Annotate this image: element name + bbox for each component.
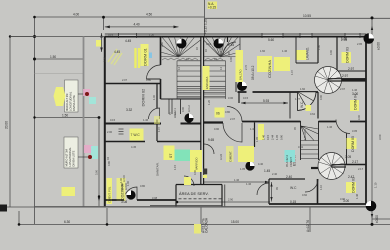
cozinha left label xyxy=(117,178,126,201)
svg-text:0.90: 0.90 xyxy=(229,56,233,62)
svg-text:4.40: 4.40 xyxy=(258,162,264,166)
svg-text:1.46: 1.46 xyxy=(234,178,240,182)
window midlines top wall xyxy=(119,34,360,36)
wall area serv left x176 xyxy=(175,185,177,207)
svg-text:1.07: 1.07 xyxy=(157,126,161,132)
wall lavand bottom y63 xyxy=(296,62,318,64)
svg-text:DORM 02: DORM 02 xyxy=(141,88,146,107)
wall wc3 left x269 xyxy=(268,179,270,204)
wall stair bottom y99 xyxy=(161,98,201,100)
svg-text:0.80: 0.80 xyxy=(225,110,231,114)
06 label xyxy=(215,108,225,118)
wall left house outer x104.5 xyxy=(104,37,106,208)
svg-text:LONGITUDINAL: LONGITUDINAL xyxy=(69,91,73,111)
svg-text:DORM 05: DORM 05 xyxy=(351,136,355,152)
lavand label xyxy=(297,47,310,60)
dim bottom connector left xyxy=(0,206,35,208)
svg-text:5.93: 5.93 xyxy=(263,99,269,103)
halo pink 2 xyxy=(84,145,92,153)
svg-text:07: 07 xyxy=(168,153,173,158)
svg-text:1.46: 1.46 xyxy=(352,88,358,92)
stair right-house winder fan xyxy=(204,37,240,61)
front line dark segment under area serv xyxy=(150,204,222,206)
party wall end block xyxy=(203,169,207,175)
yellow strip right of green xyxy=(190,150,202,172)
svg-text:1.00: 1.00 xyxy=(341,37,347,41)
dim garage vertical x99 xyxy=(98,118,100,207)
recuo faint line garage xyxy=(35,73,84,75)
wall kitchen bottom y92 xyxy=(238,91,319,93)
door arc dorm02 xyxy=(149,108,160,119)
light C5 copa left xyxy=(126,190,135,199)
svg-text:3.00: 3.00 xyxy=(95,169,99,175)
svg-text:±0.00: ±0.00 xyxy=(377,42,381,50)
light C2 stair right xyxy=(214,39,224,49)
svg-text:ESCADA: ESCADA xyxy=(303,129,307,140)
svg-text:3.00: 3.00 xyxy=(352,92,358,96)
wall kitchen return x239 xyxy=(238,92,240,103)
svg-text:CIMENT.: CIMENT. xyxy=(229,151,233,162)
red dot 2 xyxy=(88,155,92,159)
corner mark bottom-left edge xyxy=(0,205,7,212)
svg-text:1.46: 1.46 xyxy=(355,193,359,199)
svg-text:0.80: 0.80 xyxy=(146,78,152,82)
svg-text:VARRIDO: VARRIDO xyxy=(195,157,199,170)
svg-text:2.70: 2.70 xyxy=(244,64,248,70)
svg-text:2.47: 2.47 xyxy=(348,175,354,179)
wall wc3 right x318 bottom xyxy=(317,179,319,204)
svg-text:DORM 01: DORM 01 xyxy=(143,47,148,66)
wall garage gray x83.5 xyxy=(83,37,85,207)
dim arrows top line B xyxy=(98,26,373,219)
svg-text:A=1.2: A=1.2 xyxy=(187,105,191,112)
dim texts xyxy=(50,13,311,225)
winder circle lower right house xyxy=(318,153,346,180)
tiny yellow tag x101.5 dim xyxy=(96,40,102,47)
cimentado label estar xyxy=(226,146,234,162)
svg-text:0.90: 0.90 xyxy=(193,169,197,175)
svg-text:2.40: 2.40 xyxy=(272,172,278,176)
wall dorm05 bottom y164.5 xyxy=(344,164,366,166)
small yellow below xyxy=(184,177,191,185)
lot front line y207 xyxy=(35,206,373,208)
svg-text:CIMENT: CIMENT xyxy=(289,157,293,167)
note block 1 xyxy=(65,80,79,112)
text block top lot corner xyxy=(208,2,218,10)
wc left label xyxy=(130,129,144,141)
door arc front left house xyxy=(124,187,137,200)
svg-text:1.50: 1.50 xyxy=(62,113,68,117)
svg-text:1.10: 1.10 xyxy=(374,182,378,188)
light C4 corridor left xyxy=(184,113,193,122)
svg-text:3.00: 3.00 xyxy=(378,134,382,140)
svg-text:DORM 03: DORM 03 xyxy=(346,47,350,63)
dim estar interior 5.93 xyxy=(241,102,288,104)
wall dorm01 door return y79 xyxy=(147,78,161,80)
svg-text:2.17: 2.17 xyxy=(352,160,358,164)
svg-text:1.00: 1.00 xyxy=(152,94,156,100)
halo cyan 1 xyxy=(89,97,96,104)
lot line top x204.5 xyxy=(204,0,206,37)
light C3 kitchen xyxy=(237,81,247,91)
svg-text:4.00: 4.00 xyxy=(73,13,79,17)
svg-text:1.00: 1.00 xyxy=(126,180,130,186)
svg-text:0.15: 0.15 xyxy=(266,134,270,140)
svg-text:3.00: 3.00 xyxy=(340,197,346,201)
short segment right y219 xyxy=(372,218,390,220)
wall front left house repaint xyxy=(105,199,176,201)
wall top outer thick xyxy=(105,36,366,38)
svg-text:±0.00: ±0.00 xyxy=(375,215,379,223)
svg-text:4.50: 4.50 xyxy=(146,13,152,17)
dim top line A xyxy=(35,16,205,18)
wall top inner thin xyxy=(105,33,366,35)
svg-text:3.05: 3.05 xyxy=(345,155,351,159)
svg-text:1.46: 1.46 xyxy=(327,125,333,129)
svg-text:0.45: 0.45 xyxy=(228,43,234,47)
svg-text:1.27: 1.27 xyxy=(295,97,301,101)
wc2 label xyxy=(300,101,311,111)
leader 1 xyxy=(78,93,87,95)
dorm01 bright vertical streaks xyxy=(136,48,143,68)
svg-text:0.15: 0.15 xyxy=(108,33,114,37)
svg-text:2.07: 2.07 xyxy=(230,117,236,121)
door fan wc2 xyxy=(298,92,317,111)
halo pink 1 xyxy=(83,89,90,96)
wall wc2 right x318 mid xyxy=(317,92,319,119)
node dots on dimension lines xyxy=(9,16,374,226)
svg-text:2.40: 2.40 xyxy=(286,175,292,179)
wall hall2 y168 xyxy=(311,167,321,169)
svg-text:2.17: 2.17 xyxy=(358,167,364,171)
stair left treads xyxy=(177,61,201,99)
svg-text:LONGITUDINAL: LONGITUDINAL xyxy=(68,147,72,167)
note block 2 xyxy=(64,137,78,168)
svg-text:MURO ALT 3M: MURO ALT 3M xyxy=(65,94,69,111)
svg-text:10.55: 10.55 xyxy=(303,14,311,18)
wall right zone y121 xyxy=(242,121,366,123)
svg-text:0.15: 0.15 xyxy=(290,200,296,204)
handrail corridor x169.5 xyxy=(168,99,170,114)
dim top line C xyxy=(205,17,390,19)
svg-text:0.60: 0.60 xyxy=(302,193,308,197)
dim bottom riser x310 xyxy=(309,207,311,232)
tiny yellow below party end xyxy=(203,175,207,178)
stair left-house winder fan xyxy=(161,37,201,61)
handrail corridor x173.5 xyxy=(171,99,173,114)
svg-text:2.80: 2.80 xyxy=(160,41,164,47)
svg-text:1.46: 1.46 xyxy=(262,134,266,140)
dim top connector left xyxy=(10,36,35,38)
svg-text:1.10: 1.10 xyxy=(319,184,323,190)
svg-text:4.45: 4.45 xyxy=(114,50,120,54)
wall lavand left x296 xyxy=(295,37,297,64)
wall bottom right house y204 xyxy=(269,203,366,205)
dim bottom line xyxy=(19,223,390,225)
dim vertical small x101.5 top xyxy=(101,33,103,52)
svg-text:1.50: 1.50 xyxy=(50,55,56,59)
svg-text:0.90: 0.90 xyxy=(319,94,323,100)
door arc dorm01 xyxy=(147,65,161,79)
wall dorm01 right x160.5 xyxy=(160,37,162,66)
wall area serv top y189.5 xyxy=(176,184,222,186)
svg-text:ÁREA DE SERV.: ÁREA DE SERV. xyxy=(179,192,209,196)
svg-text:2.95: 2.95 xyxy=(357,42,363,46)
svg-text:2.07: 2.07 xyxy=(122,78,128,82)
svg-text:05 A=22.4: 05 A=22.4 xyxy=(285,155,289,167)
svg-text:ESCADA: ESCADA xyxy=(205,77,209,89)
door arc area serv xyxy=(184,176,194,186)
svg-text:2.44: 2.44 xyxy=(271,134,275,140)
dim top line B xyxy=(105,26,179,28)
svg-text:1.45: 1.45 xyxy=(264,169,270,173)
svg-text:15.00: 15.00 xyxy=(231,220,239,224)
benchmark C7 top-right xyxy=(364,33,375,44)
door arc estar upper leaf xyxy=(227,107,242,122)
wall wc2 left x290 xyxy=(289,92,291,119)
red dot 1 xyxy=(85,92,89,96)
svg-text:2.97: 2.97 xyxy=(342,74,348,78)
svg-text:08 A=10.2: 08 A=10.2 xyxy=(251,65,255,80)
wall wc3 top y179 xyxy=(269,178,305,180)
light C6 estar right xyxy=(245,161,254,170)
lot line top-left thin xyxy=(10,36,105,38)
svg-text:0.90: 0.90 xyxy=(214,127,220,131)
stair2 rail x300.5 xyxy=(300,121,302,160)
window jambs top wall xyxy=(119,33,361,38)
svg-text:0.62: 0.62 xyxy=(206,42,212,46)
cyan patch estar xyxy=(285,150,296,162)
svg-text:W.C: W.C xyxy=(290,186,297,190)
door arc party right house xyxy=(204,144,214,154)
svg-text:1.05: 1.05 xyxy=(227,51,231,57)
halo cyan 2 xyxy=(91,146,98,159)
dorm01 cyan dots right of label xyxy=(149,53,152,59)
svg-text:0.80: 0.80 xyxy=(140,184,146,188)
svg-text:0.80: 0.80 xyxy=(107,160,111,166)
dorm03b label xyxy=(346,177,356,193)
wall dorm02 right x157 xyxy=(156,84,158,124)
wall right outer x366 xyxy=(365,37,367,205)
dim right vertical xyxy=(371,18,373,224)
wall wc left x157 lower xyxy=(156,124,158,142)
svg-text:9.65: 9.65 xyxy=(208,138,214,142)
dorm04 label xyxy=(350,100,359,111)
svg-text:1.05: 1.05 xyxy=(219,46,223,52)
svg-text:A=22: A=22 xyxy=(219,153,223,160)
dim quintal y201.5 xyxy=(177,201,270,203)
dorm03 label top xyxy=(342,47,352,63)
dorm01 label xyxy=(141,44,149,66)
svg-text:1.15: 1.15 xyxy=(173,164,177,170)
wall lavand right x318 xyxy=(317,37,319,64)
svg-text:5.60: 5.60 xyxy=(268,38,274,42)
svg-text:1.05: 1.05 xyxy=(275,134,279,140)
07 label + green xyxy=(164,146,191,162)
svg-text:DORM 04: DORM 04 xyxy=(354,94,358,110)
svg-text:COZINHA: COZINHA xyxy=(267,60,272,78)
dim left vertical inner xyxy=(34,17,36,224)
svg-text:+0.15: +0.15 xyxy=(208,5,216,9)
wall dorm03 left x337 xyxy=(336,37,338,72)
dim quintal y182 xyxy=(204,181,269,183)
door arc estar right house xyxy=(223,123,242,142)
svg-text:A=9.6: A=9.6 xyxy=(122,175,126,182)
wall hall y79 double xyxy=(330,78,366,80)
stair right treads xyxy=(204,61,226,99)
door arc dorm05 xyxy=(336,120,350,134)
svg-text:1.00: 1.00 xyxy=(317,44,321,50)
svg-text:0.15: 0.15 xyxy=(110,118,116,122)
leader 2 xyxy=(78,156,90,158)
door arc quintal wc3 left xyxy=(257,183,269,195)
svg-text:1.60: 1.60 xyxy=(260,49,266,53)
svg-text:3.00: 3.00 xyxy=(228,96,234,100)
wall kitchen counter x236 xyxy=(235,57,237,92)
svg-text:2.97: 2.97 xyxy=(348,67,354,71)
wall estar top partial y121.5 xyxy=(204,121,223,123)
svg-text:0.90: 0.90 xyxy=(280,134,284,140)
wall estar divider x254.5 xyxy=(254,123,256,148)
svg-text:+0.15 1.20: +0.15 1.20 xyxy=(204,19,208,34)
dim bottom riser x201 xyxy=(200,207,202,232)
stair2 treads right house xyxy=(301,126,319,159)
svg-text:1.07: 1.07 xyxy=(290,69,294,75)
yellow label garage bottom xyxy=(62,187,76,196)
area box hatch dashes xyxy=(179,198,222,200)
svg-text:1.20: 1.20 xyxy=(207,99,211,105)
wall strip label left xyxy=(107,178,113,204)
svg-text:3.32: 3.32 xyxy=(126,108,132,112)
svg-text:SANITAR.: SANITAR. xyxy=(156,162,160,176)
svg-text:0.90: 0.90 xyxy=(329,49,333,55)
wall kitchen entry x227.5 xyxy=(227,37,229,43)
dim garage 1.50 upper xyxy=(35,58,84,60)
svg-text:MURO ALT 3M: MURO ALT 3M xyxy=(65,149,69,166)
svg-text:DIVISA LOTE: DIVISA LOTE xyxy=(72,150,76,166)
dorm01 bed streaks pale diagonal xyxy=(108,49,122,65)
scattered tiny dim texts xyxy=(95,33,364,202)
svg-text:2.97: 2.97 xyxy=(340,87,346,91)
svg-text:1.46: 1.46 xyxy=(246,182,252,186)
door arc kitchen entry xyxy=(223,42,236,55)
tiny text stack x201 bottom xyxy=(194,217,209,233)
svg-text:1.20: 1.20 xyxy=(149,33,155,37)
wall dorm03 bottom y71 xyxy=(330,70,366,72)
wall wc bottom y141 xyxy=(105,141,201,143)
wall stair left x160.5 lower xyxy=(160,79,162,99)
svg-text:1.05: 1.05 xyxy=(240,167,246,171)
svg-text:1.05: 1.05 xyxy=(255,136,259,142)
svg-text:1.60: 1.60 xyxy=(300,87,306,91)
estar yellow strip x258 xyxy=(258,124,264,140)
svg-text:1.46: 1.46 xyxy=(143,118,149,122)
svg-text:A=12.76: A=12.76 xyxy=(306,220,310,232)
light C1 stair left xyxy=(177,39,187,49)
dim top riser x103.5 xyxy=(103,17,105,30)
dim quintal vertical x272 xyxy=(271,182,273,202)
wall party x203.5 xyxy=(203,37,205,185)
svg-text:LAVAND.: LAVAND. xyxy=(306,47,310,60)
kitchen strip counter x236 xyxy=(236,50,244,82)
svg-text:4.45: 4.45 xyxy=(125,39,131,43)
svg-text:2.00: 2.00 xyxy=(107,130,113,134)
svg-text:DORM 03: DORM 03 xyxy=(352,177,356,193)
svg-text:20.00: 20.00 xyxy=(5,121,9,129)
svg-text:3.05: 3.05 xyxy=(352,129,358,133)
dim garage 1.50 lower xyxy=(35,117,100,119)
svg-text:0.15: 0.15 xyxy=(243,96,249,100)
svg-text:3.02: 3.02 xyxy=(298,145,304,149)
wall corridor x180.5 xyxy=(180,99,182,114)
svg-text:1.46: 1.46 xyxy=(250,127,256,131)
estar yellows center xyxy=(238,146,254,162)
dim left vertical outer xyxy=(9,37,11,208)
svg-text:3.00: 3.00 xyxy=(357,114,361,120)
yellow glow garage 1 xyxy=(54,87,66,106)
svg-text:A=2.1: A=2.1 xyxy=(173,108,177,115)
benchmark C8 bottom-right xyxy=(366,201,377,212)
svg-text:W.C: W.C xyxy=(300,101,304,108)
svg-text:06: 06 xyxy=(216,112,220,116)
svg-text:4.45: 4.45 xyxy=(131,145,137,149)
svg-text:0.90: 0.90 xyxy=(181,106,185,112)
wall party x200.5 xyxy=(200,37,202,185)
dorm05 label xyxy=(347,136,357,152)
svg-text:DIVISA LOTE: DIVISA LOTE xyxy=(72,95,76,111)
wall front left house y200 xyxy=(105,199,176,201)
wall dorm05 left x346.5 xyxy=(346,134,348,165)
svg-text:7 W.C: 7 W.C xyxy=(131,133,141,137)
dim bottom riser x107 xyxy=(106,208,108,224)
svg-text:4.40: 4.40 xyxy=(134,23,140,27)
estar text cols under wall xyxy=(262,134,294,167)
svg-text:2.90: 2.90 xyxy=(228,198,234,202)
kitchen counters yellow xyxy=(257,56,272,72)
dim bottom riser left xyxy=(18,211,20,224)
svg-text:CALCADA: CALCADA xyxy=(205,217,209,233)
winder circle upper right house xyxy=(315,67,367,94)
escada label left stair xyxy=(203,66,210,90)
stair2 rail x318.5 xyxy=(318,121,320,160)
wall mid left house y123.5 xyxy=(105,123,201,125)
svg-text:1.46: 1.46 xyxy=(282,49,288,53)
svg-text:3.30: 3.30 xyxy=(103,56,107,62)
door arc wc3 xyxy=(305,179,318,192)
svg-text:6.30: 6.30 xyxy=(64,220,70,224)
wall area serv right x228 xyxy=(221,185,223,207)
svg-text:0.62: 0.62 xyxy=(310,112,316,116)
wall dorm01/dorm02 y83.5 xyxy=(105,83,161,85)
